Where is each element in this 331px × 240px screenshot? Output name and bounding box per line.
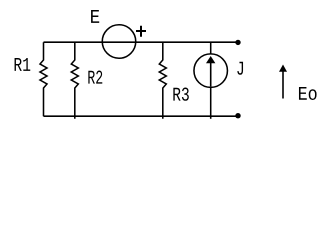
arrow of current source J <box>206 56 215 87</box>
node output terminal top <box>235 40 240 45</box>
arrow Eo output voltage <box>279 65 287 99</box>
resistor R2 <box>71 42 78 119</box>
label Eo <box>299 87 317 100</box>
wire top rail <box>44 41 239 43</box>
resistor R3 <box>159 42 166 119</box>
label J <box>237 62 243 75</box>
wire J branch top <box>210 42 212 54</box>
label R3 <box>173 88 188 101</box>
label R2 <box>88 71 102 84</box>
wire J branch bottom <box>210 87 212 119</box>
node output terminal bottom <box>235 113 240 118</box>
voltage source E circle <box>102 25 136 59</box>
label E <box>91 10 99 23</box>
polarity plus sign of E <box>136 26 146 37</box>
wire bottom rail <box>44 115 239 117</box>
current source J circle <box>194 54 228 88</box>
label R1 <box>15 58 31 71</box>
resistor R1 <box>40 42 47 116</box>
